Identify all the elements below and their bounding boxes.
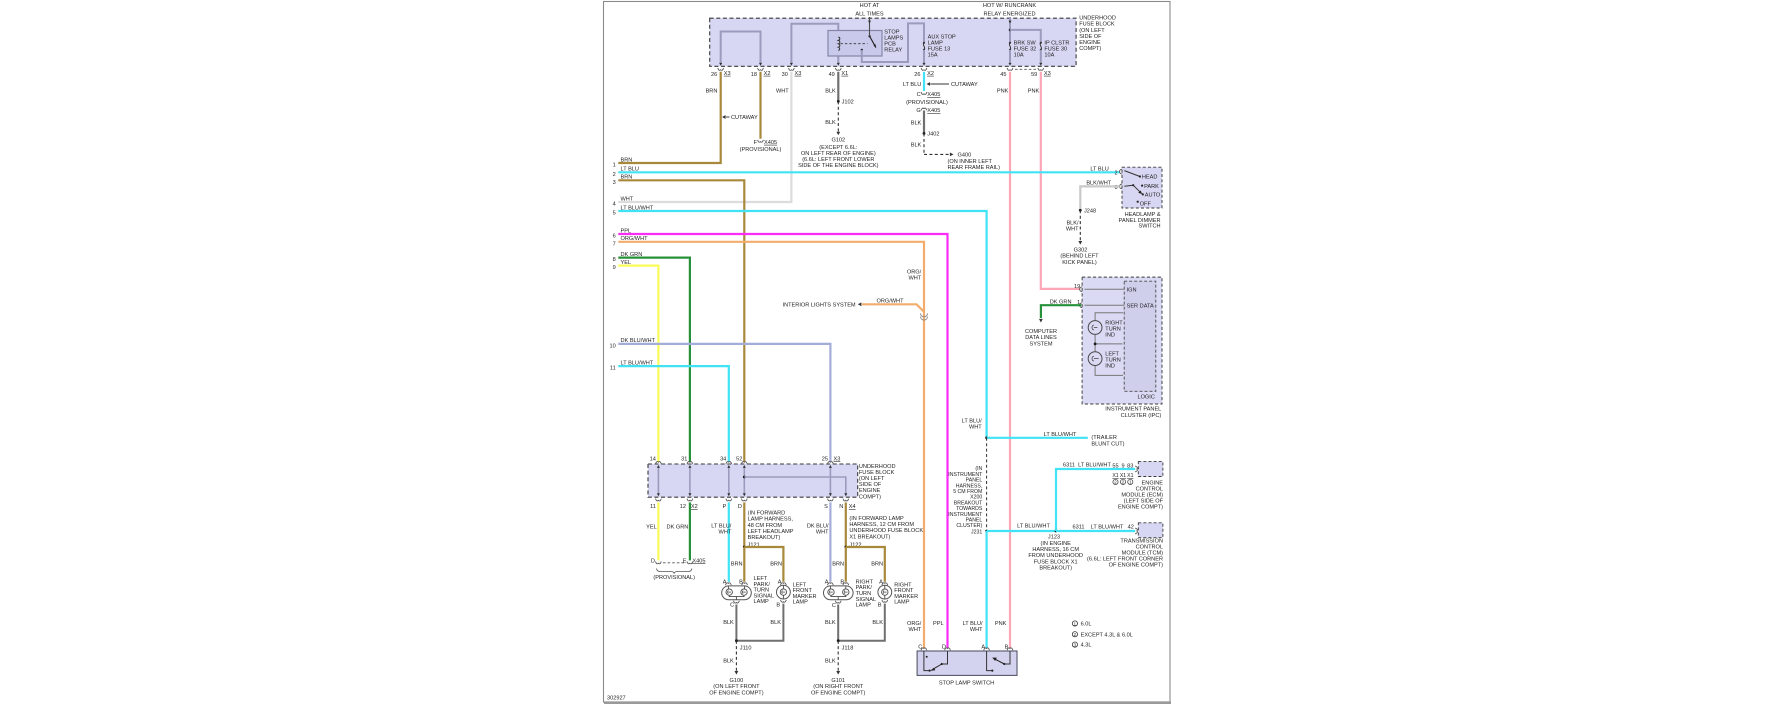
stop lamp switch label [939, 680, 994, 686]
wire BLK dashed to ground G102 [825, 101, 840, 135]
wire YEL pin 11 to connector D [646, 502, 661, 563]
svg-text:CONTROL: CONTROL [1136, 486, 1163, 492]
svg-text:X4: X4 [849, 504, 856, 510]
wire labels at stop lamp switch [907, 621, 1007, 633]
svg-text:BLK: BLK [723, 620, 734, 626]
wire WHT from pin 30/X3 to line 4 [618, 72, 791, 202]
computer data lines system label [1025, 329, 1057, 347]
svg-text:BRN: BRN [621, 175, 633, 181]
svg-text:HOT AT: HOT AT [860, 3, 880, 9]
svg-text:59: 59 [1031, 72, 1037, 78]
wire BLK below G X405 to splice J402 [911, 111, 940, 138]
svg-text:12: 12 [680, 504, 686, 510]
wire LT BLU/WHT pin P to left park lamp A [711, 502, 732, 581]
svg-text:X2: X2 [691, 504, 698, 510]
svg-text:48 CM FROM: 48 CM FROM [748, 523, 783, 529]
svg-text:5: 5 [613, 211, 616, 217]
svg-text:BLK/WHT: BLK/WHT [1086, 180, 1111, 186]
svg-text:CLUSTER (IPC): CLUSTER (IPC) [1121, 413, 1162, 419]
hot w/ runcrank feed [983, 3, 1037, 42]
wire BLK from pin 49/X1 to splice J102 [825, 72, 854, 106]
cutaway marker LT BLU [927, 82, 978, 88]
circuit line 7 ORG/WHT [613, 236, 924, 648]
harness note J121 [748, 510, 794, 548]
svg-text:ENGINE: ENGINE [1142, 480, 1164, 486]
svg-text:J231: J231 [971, 530, 982, 536]
relay label [884, 30, 903, 54]
svg-text:X3: X3 [834, 456, 841, 462]
svg-text:C: C [918, 644, 922, 650]
wire BRN pin D to splice J121 [743, 502, 745, 547]
page border frame [604, 2, 1172, 703]
svg-text:BRN: BRN [832, 561, 844, 567]
svg-text:X405: X405 [927, 92, 940, 98]
svg-text:BLK: BLK [911, 143, 922, 149]
svg-text:BLUNT CUT): BLUNT CUT) [1091, 441, 1124, 447]
svg-text:HARNESS, 12 CM FROM: HARNESS, 12 CM FROM [849, 522, 914, 528]
stop lamp switch [917, 648, 1017, 676]
svg-text:4: 4 [613, 202, 616, 208]
svg-text:PNK: PNK [997, 89, 1009, 95]
svg-text:EXCEPT 4.3L & 6.0L: EXCEPT 4.3L & 6.0L [1081, 632, 1133, 638]
headlamp switch label [1119, 212, 1161, 230]
svg-text:(PROVISIONAL): (PROVISIONAL) [906, 100, 948, 106]
underhood fuse block (middle) [648, 464, 858, 497]
svg-text:CUTAWAY: CUTAWAY [731, 115, 758, 121]
svg-text:X2: X2 [927, 71, 934, 77]
svg-text:WHT: WHT [909, 627, 922, 633]
svg-text:G: G [916, 108, 920, 114]
svg-text:BLK: BLK [825, 620, 836, 626]
svg-text:(ON LEFT: (ON LEFT [859, 476, 885, 482]
svg-text:ENGINE: ENGINE [859, 488, 881, 494]
svg-text:BLK: BLK [825, 659, 836, 665]
svg-text:19: 19 [1074, 284, 1080, 290]
middle block internal branch to pin N [743, 476, 847, 497]
fuse 30 label [1044, 41, 1069, 59]
underhood fuse block label (top right) [1079, 16, 1116, 53]
svg-text:(PROVISIONAL): (PROVISIONAL) [740, 147, 782, 153]
ground G101 [811, 678, 866, 696]
svg-text:15A: 15A [928, 52, 938, 58]
svg-text:BLK: BLK [825, 120, 836, 126]
TCM label [1087, 538, 1163, 568]
svg-text:WHT: WHT [908, 276, 921, 282]
wire LT BLU from pin 26/X2 [903, 72, 924, 91]
svg-text:(LEFT SIDE OF: (LEFT SIDE OF [1124, 499, 1164, 505]
svg-text:ORG/WHT: ORG/WHT [621, 236, 649, 242]
svg-text:BLK: BLK [825, 89, 836, 95]
connector C X405 [906, 92, 948, 106]
instrument panel cluster (IPC) [1082, 277, 1162, 404]
svg-text:31: 31 [681, 456, 687, 462]
svg-text:FUSE BLOCK: FUSE BLOCK [1079, 22, 1115, 28]
svg-text:BREAKOUT): BREAKOUT) [748, 535, 781, 541]
svg-text:RELAY ENERGIZED: RELAY ENERGIZED [983, 11, 1035, 17]
svg-text:HEAD: HEAD [1142, 175, 1158, 181]
harness note J123 [1028, 541, 1083, 572]
wire PNK from pin 45 to stop lamp switch pin B [997, 72, 1010, 648]
svg-text:(BEHIND LEFT: (BEHIND LEFT [1060, 254, 1099, 260]
IPC logic box [1124, 281, 1156, 400]
svg-text:10A: 10A [1014, 52, 1024, 58]
circuit line 9 YEL [613, 260, 659, 462]
svg-text:(6.6L: LEFT FRONT CORNER: (6.6L: LEFT FRONT CORNER [1087, 557, 1163, 563]
svg-text:DK GRN: DK GRN [667, 525, 689, 531]
svg-text:BLK: BLK [911, 121, 922, 127]
svg-text:KICK PANEL): KICK PANEL) [1062, 260, 1097, 266]
splice J110 [735, 639, 752, 651]
svg-text:X3: X3 [795, 71, 802, 77]
svg-text:(ON RIGHT FRONT: (ON RIGHT FRONT [813, 684, 864, 690]
connector F X405 labels [740, 140, 782, 153]
internal bus wire pin 30 to relay coil [790, 24, 838, 66]
middle block bottom pin labels [650, 504, 856, 510]
svg-text:N: N [839, 504, 843, 510]
svg-text:A: A [981, 644, 985, 650]
svg-text:A: A [723, 580, 727, 586]
dashed BLK to ground G100 [723, 641, 738, 675]
middle block internal wire 31-12 [688, 465, 691, 496]
svg-text:(ON LEFT FRONT: (ON LEFT FRONT [713, 684, 760, 690]
circuit line 6 PPL [613, 228, 948, 648]
svg-text:LT BLU: LT BLU [1090, 167, 1108, 173]
svg-text:UNDERHOOD: UNDERHOOD [1079, 16, 1116, 22]
internal bus wire pins 26-18 [719, 32, 762, 66]
ECM wire labels [1063, 463, 1133, 470]
svg-text:UNDERHOOD: UNDERHOOD [859, 464, 896, 470]
svg-text:X1 BREAKOUT): X1 BREAKOUT) [849, 534, 890, 540]
circuit line 10 DK BLU/WHT [609, 338, 830, 462]
svg-text:9: 9 [1121, 463, 1124, 469]
stop lamp switch pin labels [918, 644, 1008, 650]
svg-text:LT BLU/: LT BLU/ [962, 418, 982, 424]
right park/turn lamp label [856, 579, 877, 608]
top block pin labels [711, 71, 1051, 78]
svg-text:LAMP: LAMP [754, 599, 770, 605]
svg-text:55: 55 [1112, 463, 1118, 469]
middle block bottom pin connectors [656, 499, 849, 501]
svg-text:BRN: BRN [621, 157, 633, 163]
aux stop lamp fuse 13 [923, 42, 926, 66]
wire BRN pin N to splice J122 [845, 502, 847, 547]
splice J123 [1048, 530, 1060, 541]
svg-text:45: 45 [1000, 72, 1006, 78]
svg-text:(PROVISIONAL): (PROVISIONAL) [653, 575, 695, 581]
svg-text:COMPUTER: COMPUTER [1025, 329, 1057, 335]
svg-text:LT BLU/WHT: LT BLU/WHT [1078, 463, 1111, 469]
svg-text:ORG/WHT: ORG/WHT [876, 299, 904, 305]
svg-text:34: 34 [720, 456, 726, 462]
svg-text:ORG/: ORG/ [907, 270, 922, 276]
svg-text:B: B [776, 603, 780, 609]
label BRN wire1 [706, 89, 718, 95]
svg-text:X1: X1 [1120, 473, 1126, 479]
right turn indicator lamp [1088, 320, 1123, 338]
svg-text:LAMP HARNESS,: LAMP HARNESS, [748, 517, 794, 523]
svg-text:G102: G102 [831, 137, 845, 143]
IPC label [1105, 407, 1161, 419]
svg-text:LEFT HEADLAMP: LEFT HEADLAMP [748, 529, 794, 535]
ECM label [1118, 480, 1164, 510]
svg-text:WHT: WHT [970, 627, 983, 633]
svg-text:J118: J118 [842, 646, 854, 652]
svg-text:1: 1 [613, 163, 616, 169]
svg-text:D: D [738, 504, 742, 510]
headlamp switch pin labels [1090, 167, 1117, 191]
svg-text:BLK: BLK [872, 620, 883, 626]
middle block top pin connectors [656, 462, 834, 464]
svg-text:B: B [840, 580, 844, 586]
svg-text:IND: IND [1105, 363, 1115, 369]
svg-text:TRANSMISSION: TRANSMISSION [1120, 538, 1163, 544]
svg-text:C: C [832, 603, 836, 609]
svg-text:10A: 10A [1044, 52, 1054, 58]
svg-text:G100: G100 [730, 678, 744, 684]
ECM box [1138, 462, 1163, 477]
svg-text:52: 52 [736, 456, 742, 462]
right front marker lamp [878, 580, 892, 609]
svg-text:BLK: BLK [723, 659, 734, 665]
svg-text:INTERIOR LIGHTS SYSTEM: INTERIOR LIGHTS SYSTEM [783, 303, 856, 309]
splice J231 [985, 530, 988, 648]
wire BLK right park lamp C to splice J118 [825, 605, 838, 641]
svg-text:RELAY: RELAY [884, 48, 902, 54]
svg-text:14: 14 [650, 456, 656, 462]
circuit line 8 DK GRN [613, 252, 690, 462]
svg-text:8: 8 [613, 257, 616, 263]
wire PNK from pin 59/X3 to IPC pin 19 [1028, 72, 1080, 289]
IPC pin 19 IGN [1074, 284, 1137, 294]
svg-text:11: 11 [610, 366, 616, 372]
svg-text:4.3L: 4.3L [1081, 643, 1092, 649]
harness note J122 [849, 516, 923, 549]
svg-text:LT BLU/WHT: LT BLU/WHT [621, 360, 654, 366]
svg-text:LT BLU/WHT: LT BLU/WHT [1044, 432, 1077, 438]
svg-text:(IN FORWARD LAMP: (IN FORWARD LAMP [849, 516, 904, 522]
svg-text:(IN ENGINE: (IN ENGINE [1040, 541, 1071, 547]
svg-text:HARNESS, 16 CM: HARNESS, 16 CM [1032, 547, 1079, 553]
svg-text:IGN: IGN [1127, 287, 1137, 293]
relay coil lower lead to pin 49 [837, 51, 840, 66]
splice J121 [731, 546, 784, 582]
svg-text:2: 2 [613, 172, 616, 178]
harness segment note J231 [948, 438, 986, 536]
svg-text:X405: X405 [927, 108, 940, 114]
wire BRN from pin 18/X2 to connector F/X405 [758, 72, 764, 142]
svg-text:X1: X1 [1127, 473, 1133, 479]
svg-text:G400: G400 [958, 153, 972, 159]
svg-text:PPL: PPL [621, 228, 632, 234]
svg-text:CUTAWAY: CUTAWAY [951, 82, 978, 88]
svg-text:BRN: BRN [706, 89, 718, 95]
svg-text:DK BLU/WHT: DK BLU/WHT [621, 338, 656, 344]
fuse 32 label [1014, 41, 1037, 59]
svg-text:J248: J248 [1084, 209, 1096, 215]
svg-text:B: B [1005, 644, 1009, 650]
svg-text:OF ENGINE COMPT): OF ENGINE COMPT) [709, 690, 764, 696]
wire LT BLU/WHT J231 to splice J123 [987, 523, 1056, 531]
svg-text:COMPT): COMPT) [1079, 46, 1101, 52]
ground G400 [948, 153, 1001, 171]
svg-text:WHT: WHT [621, 196, 634, 202]
svg-text:X3: X3 [1044, 71, 1051, 77]
wire LT BLU/WHT J123 to TCM [1056, 528, 1137, 534]
svg-text:J402: J402 [927, 132, 939, 138]
middle block internal wire 25-S [829, 465, 832, 496]
IPC turn indicator circuit [1094, 313, 1123, 376]
svg-text:BRN: BRN [731, 561, 743, 567]
svg-text:LT BLU: LT BLU [903, 82, 921, 88]
middle block label [859, 464, 896, 501]
svg-text:J102: J102 [842, 100, 854, 106]
wire BRN from pin 26/X3 to line 1 [618, 72, 720, 163]
svg-text:PPL: PPL [933, 621, 944, 627]
wire LT BLU/WHT J123 up to ECM [1056, 466, 1137, 531]
svg-text:G101: G101 [831, 678, 845, 684]
svg-text:IND: IND [1105, 332, 1115, 338]
svg-text:DK GRN: DK GRN [1050, 299, 1072, 305]
svg-text:J110: J110 [740, 646, 752, 652]
svg-text:X2: X2 [764, 71, 771, 77]
svg-text:9: 9 [613, 265, 616, 271]
svg-text:DK BLU/: DK BLU/ [807, 523, 829, 529]
circuit line 4 WHT [613, 196, 634, 207]
svg-text:(ON LEFT: (ON LEFT [1079, 28, 1105, 34]
svg-text:(TRAILER: (TRAILER [1091, 435, 1117, 441]
svg-text:J123: J123 [1048, 535, 1060, 541]
stop lamps pcb relay U1 [828, 31, 882, 57]
wire BLK left park lamp C to splice J110 [723, 605, 736, 641]
svg-text:OFF: OFF [1140, 202, 1152, 208]
circuit line 3 BRN [613, 175, 745, 462]
middle block top pin labels [650, 456, 841, 462]
svg-text:E: E [683, 558, 687, 564]
svg-text:YEL: YEL [646, 525, 657, 531]
connector D/E X405 provisional [651, 558, 706, 580]
svg-text:OF ENGINE COMPT): OF ENGINE COMPT) [1109, 563, 1164, 569]
svg-text:10: 10 [609, 344, 615, 350]
splice J122 [832, 546, 885, 582]
left front marker lamp [776, 580, 790, 609]
svg-text:BLK: BLK [770, 620, 781, 626]
svg-text:83: 83 [1127, 463, 1133, 469]
svg-text:6311: 6311 [1072, 524, 1084, 530]
splice J248 [1079, 209, 1096, 215]
wire DK GRN pin 12 to connector E [667, 502, 693, 563]
svg-text:B: B [878, 603, 882, 609]
svg-text:SIDE OF: SIDE OF [859, 482, 882, 488]
svg-text:AUTO: AUTO [1145, 193, 1161, 199]
svg-text:FUSE BLOCK: FUSE BLOCK [859, 470, 895, 476]
svg-text:COMPT): COMPT) [859, 494, 881, 500]
right park/turn signal lamp [824, 580, 854, 610]
svg-text:LOGIC: LOGIC [1137, 394, 1154, 400]
svg-text:30: 30 [782, 72, 788, 78]
svg-text:INSTRUMENT PANEL: INSTRUMENT PANEL [1105, 407, 1161, 413]
dashed BLK/WHT to ground G302 [1066, 210, 1082, 244]
svg-text:D: D [942, 644, 946, 650]
hot at all times feed [855, 3, 884, 36]
svg-text:C: C [730, 603, 734, 609]
svg-text:6.0L: 6.0L [1081, 622, 1092, 628]
svg-text:(ON INNER LEFT: (ON INNER LEFT [948, 159, 993, 165]
wire LT BLU/WHT trailer blunt cut [987, 432, 1125, 447]
middle block internal wire 14-11 [657, 465, 660, 496]
svg-text:S: S [824, 504, 828, 510]
svg-text:B: B [739, 580, 743, 586]
wire BLK left marker B to splice J110 [736, 604, 783, 641]
svg-text:PARK: PARK [1144, 184, 1159, 190]
svg-text:REAR FRAME RAIL): REAR FRAME RAIL) [948, 165, 1001, 171]
circuit line 11 LT BLU/WHT [610, 360, 729, 461]
left park/turn lamp label [754, 576, 775, 605]
svg-text:LAMP: LAMP [856, 603, 872, 609]
cutaway marker wire1 [722, 115, 758, 121]
svg-text:X3: X3 [724, 71, 731, 77]
svg-text:WHT: WHT [719, 530, 732, 536]
svg-text:A: A [778, 580, 782, 586]
svg-text:LT BLU/WHT: LT BLU/WHT [621, 205, 654, 211]
svg-text:ENGINE COMPT): ENGINE COMPT) [1118, 505, 1163, 511]
ground G100 [709, 678, 764, 696]
svg-text:BREAKOUT): BREAKOUT) [1039, 566, 1072, 572]
circuit line 1 BRN [613, 157, 633, 168]
svg-text:(IN FORWARD: (IN FORWARD [748, 510, 786, 516]
svg-text:LT BLU/WHT: LT BLU/WHT [1091, 524, 1124, 530]
drawing number [607, 696, 626, 702]
svg-text:G302: G302 [1074, 247, 1088, 253]
svg-text:X405: X405 [764, 140, 777, 146]
svg-text:WHT: WHT [1066, 227, 1079, 233]
svg-text:HOT W/ RUNCRANK: HOT W/ RUNCRANK [983, 3, 1037, 9]
connector G X405 [916, 108, 940, 114]
svg-text:STOP LAMP SWITCH: STOP LAMP SWITCH [939, 680, 994, 686]
svg-text:UNDERHOOD FUSE BLOCK: UNDERHOOD FUSE BLOCK [849, 528, 923, 534]
svg-text:SIDE OF: SIDE OF [1079, 34, 1102, 40]
svg-text:SIDE OF THE ENGINE BLOCK): SIDE OF THE ENGINE BLOCK) [798, 163, 879, 169]
circuit line 2 LT BLU [613, 167, 1120, 178]
svg-text:ALL TIMES: ALL TIMES [855, 11, 884, 17]
headlamp & panel dimmer switch [1120, 167, 1162, 208]
TCM box [1138, 523, 1163, 538]
right front marker lamp label [894, 582, 918, 605]
svg-text:6311: 6311 [1063, 463, 1075, 469]
svg-text:CONTROL: CONTROL [1136, 544, 1163, 550]
svg-text:26: 26 [711, 72, 717, 78]
middle block internal wire 34-P [727, 465, 730, 496]
svg-text:7: 7 [613, 241, 616, 247]
svg-text:DK GRN: DK GRN [621, 252, 643, 258]
interior lights system branch of ORG/WHT [783, 299, 928, 321]
svg-text:2: 2 [1114, 170, 1117, 176]
relay output wire to fuse 13 [862, 23, 924, 62]
IPC pin 1 SER DATA [1077, 300, 1154, 310]
svg-text:OF ENGINE COMPT): OF ENGINE COMPT) [811, 690, 866, 696]
svg-text:WHT: WHT [776, 89, 789, 95]
svg-text:YEL: YEL [621, 260, 632, 266]
svg-text:LAMP: LAMP [894, 600, 910, 606]
label WHT [776, 89, 789, 95]
ground G102 [798, 137, 879, 169]
svg-text:MODULE (TCM): MODULE (TCM) [1122, 551, 1163, 557]
svg-text:F: F [754, 140, 758, 146]
svg-text:302927: 302927 [607, 696, 626, 702]
svg-text:C: C [917, 92, 921, 98]
svg-text:FROM UNDERHOOD: FROM UNDERHOOD [1028, 553, 1083, 559]
svg-text:PNK: PNK [995, 621, 1007, 627]
svg-text:X405: X405 [692, 558, 705, 564]
